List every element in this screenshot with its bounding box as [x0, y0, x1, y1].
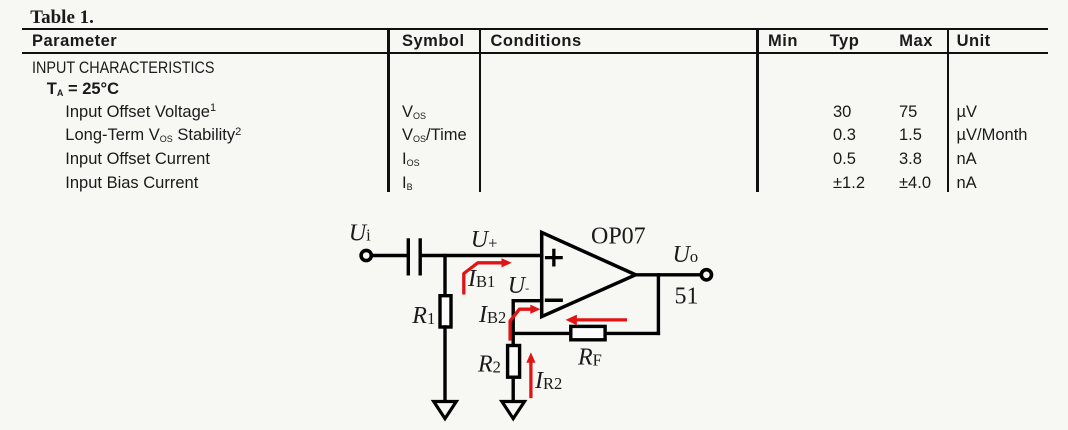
op-amp plus input sign — [547, 250, 562, 264]
op-amp U1 OP07 triangle — [542, 232, 636, 316]
resistor R1 — [440, 296, 451, 327]
svg-text:U-: U- — [508, 273, 529, 299]
wire terminal to capacitor — [372, 254, 407, 257]
current arrow IR2 — [529, 362, 532, 397]
ground (R2) — [502, 402, 525, 419]
wire R2 to ground — [512, 377, 515, 401]
output wire — [634, 273, 701, 276]
input terminal Ui — [361, 250, 371, 260]
svg-text:Ui: Ui — [349, 221, 371, 247]
current arrow IB2 — [510, 309, 531, 339]
resistor R2 — [508, 346, 520, 378]
row 2 — [47, 81, 119, 97]
row 5 — [65, 151, 210, 167]
svg-text:Uo: Uo — [673, 242, 699, 268]
svg-text:51: 51 — [675, 284, 699, 310]
row 6 — [65, 175, 198, 191]
table top rule — [22, 28, 1048, 30]
current arrow IB1 — [464, 263, 502, 293]
svg-text:R2: R2 — [477, 352, 501, 378]
svg-text:IR2: IR2 — [534, 368, 562, 394]
vertical line after Symbol — [479, 28, 481, 192]
svg-text:U+: U+ — [471, 227, 498, 253]
op-amp minus input sign — [547, 298, 562, 302]
wire junction down to R1 — [443, 256, 446, 297]
ground (R1) — [434, 402, 457, 419]
svg-text:RF: RF — [577, 344, 602, 370]
table header rule — [22, 52, 1048, 54]
svg-text:R1: R1 — [411, 303, 435, 329]
capacitor right plate — [419, 240, 422, 274]
vertical line after Conditions — [756, 28, 758, 192]
wire op-amp inverting input — [513, 301, 541, 346]
feedback current arrow — [577, 318, 626, 321]
vertical line before Unit — [947, 28, 949, 192]
capacitor left plate — [407, 240, 410, 274]
output terminal Uo — [701, 270, 711, 280]
svg-text:IB1: IB1 — [467, 266, 495, 292]
resistor RF — [571, 326, 605, 339]
feedback wire vertical — [657, 275, 660, 334]
table title — [30, 8, 94, 27]
feedback wire horizontal — [513, 332, 658, 335]
row 4 — [65, 127, 241, 143]
header row — [32, 33, 117, 49]
row 3 — [65, 104, 216, 120]
vertical line after Parameter — [387, 28, 389, 192]
wire capacitor to op-amp non-inverting input — [422, 254, 542, 257]
svg-text:OP07: OP07 — [591, 223, 646, 249]
svg-text:IB2: IB2 — [478, 302, 506, 328]
wire R1 to ground — [443, 327, 446, 401]
row 1 — [32, 60, 215, 76]
